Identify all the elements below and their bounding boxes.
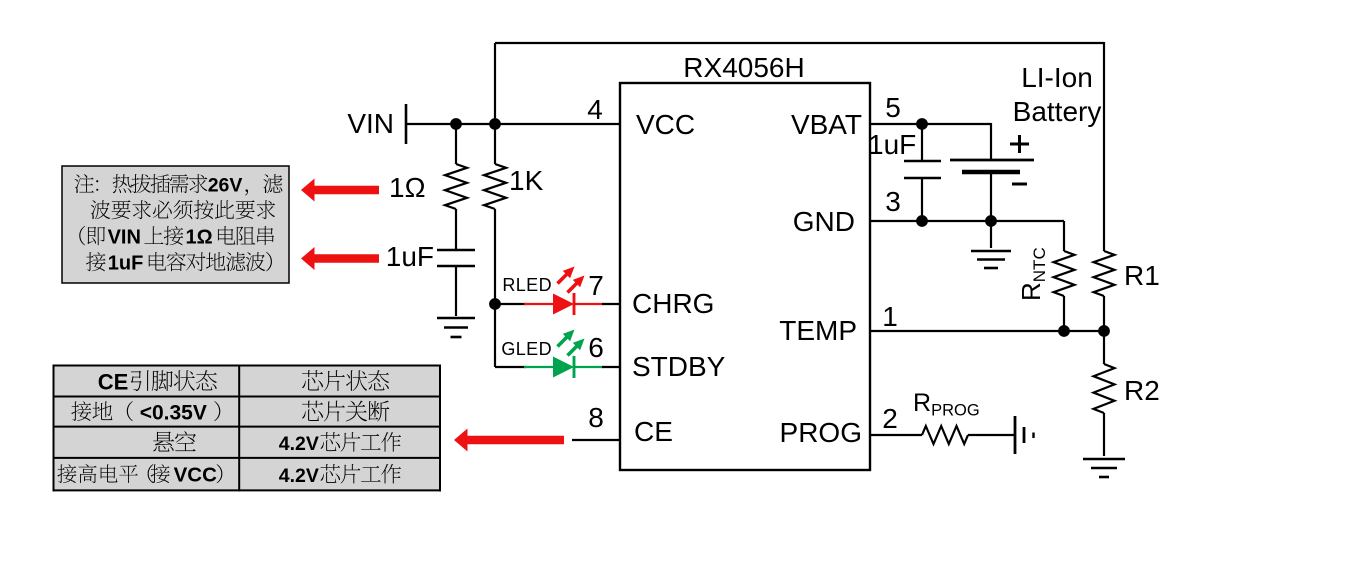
wire: PROG pin 2 to RPROG — [870, 434, 922, 436]
table cell: chip off — [302, 401, 323, 421]
resistor 1K — [484, 164, 506, 209]
svg-text:1Ω: 1Ω — [389, 172, 426, 203]
wire: top-rail left drop to VIN node — [494, 43, 496, 124]
svg-text:26V: 26V — [208, 175, 243, 197]
svg-text:LI-Ion: LI-Ion — [1021, 62, 1093, 93]
wire: GLED to STDBY pin 6 (black) — [602, 366, 621, 368]
wire: node to RLED anode (black) — [495, 303, 526, 305]
svg-text:2: 2 — [882, 403, 898, 434]
wire: battery + drop — [990, 123, 992, 161]
wire: VBAT pin 5 to battery — [870, 123, 991, 125]
svg-text:RX4056H: RX4056H — [683, 52, 804, 83]
svg-text:5: 5 — [885, 92, 901, 123]
node: TEMP/RNTC junction — [1058, 325, 1070, 337]
wire: R1 bottom to TEMP rail — [1103, 296, 1105, 331]
wire: VIN to VCC pin 4 — [406, 123, 621, 125]
wire: RLED anode lead (red) — [524, 303, 553, 305]
capacitor 1uF (input filter) — [437, 249, 475, 252]
wire: RLED cathode lead (red) — [574, 303, 604, 305]
svg-text:1K: 1K — [509, 165, 544, 196]
resistor RNTC — [1054, 251, 1075, 296]
svg-text:4: 4 — [587, 94, 603, 125]
node: junction VIN/1K/top-rail — [489, 118, 501, 130]
wire: CE pin 8 stub — [572, 439, 621, 441]
wire: GND pin 3 rail — [870, 220, 1064, 222]
note text line 1 — [75, 174, 94, 193]
svg-text:CE: CE — [634, 416, 673, 447]
LED GLED (green standby indicator) — [553, 357, 574, 378]
battery BT1 minus plate — [962, 170, 1020, 175]
ground (input filter) — [437, 317, 475, 320]
node: TEMP/R1/R2 junction — [1098, 325, 1110, 337]
svg-text:7: 7 — [588, 270, 604, 301]
svg-text:TEMP: TEMP — [779, 315, 857, 346]
svg-text:1uF: 1uF — [868, 129, 916, 160]
svg-text:VCC: VCC — [636, 109, 695, 140]
table cell: tied high to VCC — [57, 464, 76, 483]
IC U1 RX4056H body — [620, 83, 870, 470]
wire: top rail from VIN node to R1 branch — [495, 42, 1104, 44]
svg-text:RNTC: RNTC — [1016, 247, 1049, 301]
svg-text:VBAT: VBAT — [791, 109, 862, 140]
svg-text:1uF: 1uF — [386, 241, 434, 272]
svg-text:1: 1 — [882, 301, 898, 332]
wire: TEMP node to R2 — [1103, 331, 1105, 364]
svg-text:1Ω: 1Ω — [186, 227, 213, 249]
wire: LED node down to GLED row — [494, 304, 496, 367]
wire: GND rail drop to RNTC — [1063, 221, 1065, 251]
resistor RPROG — [922, 426, 968, 444]
ground (R2) — [1083, 458, 1125, 461]
svg-text:3: 3 — [885, 186, 901, 217]
svg-text:4.2V: 4.2V — [279, 465, 319, 487]
svg-text:STDBY: STDBY — [632, 351, 726, 382]
table cell: floating — [153, 431, 174, 451]
wire: top-rail right drop to R1 — [1103, 42, 1105, 251]
wire: R2 to ground — [1103, 413, 1105, 456]
wire: GLED anode lead (green) — [524, 366, 553, 368]
node: junction VIN/1ohm — [450, 118, 462, 130]
svg-text:RLED: RLED — [502, 275, 552, 295]
wire: C2 bottom lead — [921, 178, 923, 221]
wire: C2 top lead — [921, 124, 923, 161]
wire: GLED cathode lead (green) — [574, 366, 604, 368]
wire: RLED to CHRG pin 7 (black) — [602, 303, 621, 305]
annotation arrow to 1 ohm — [301, 179, 379, 202]
battery polarity + sign — [1010, 143, 1029, 146]
resistor 1 ohm — [445, 164, 467, 209]
wire: RNTC to TEMP rail — [1063, 296, 1065, 331]
wire: GND rail to ground symbol — [990, 221, 992, 248]
annotation arrow to CE pin — [454, 429, 564, 452]
resistor R1 — [1094, 251, 1115, 296]
LED RLED (red charge indicator) — [553, 294, 574, 315]
capacitor C2 1uF (battery) — [904, 160, 941, 163]
svg-text:VIN: VIN — [108, 227, 141, 249]
node: VBAT/C2 junction — [916, 118, 928, 130]
wire: node to GLED anode (black) — [495, 366, 526, 368]
ground (RPROG, rotated) — [1014, 416, 1017, 454]
wire: node to R 1ohm top — [455, 124, 457, 164]
ground (battery/GND) — [971, 250, 1011, 253]
node: GND/C2 junction — [916, 215, 928, 227]
wire: RPROG to ground — [968, 434, 1014, 436]
note box (grey annotation) — [62, 166, 289, 283]
wire: node to R 1K top — [494, 124, 496, 164]
table: CE pin state table frame — [54, 366, 441, 491]
svg-text:6: 6 — [588, 332, 604, 363]
table cell: grounded <0.35V — [71, 401, 91, 421]
note text line 4 — [86, 252, 105, 271]
resistor R2 — [1094, 364, 1115, 413]
wire: C 1uF to ground — [455, 266, 457, 316]
note text line 3 — [79, 226, 85, 246]
svg-text:PROG: PROG — [780, 417, 862, 448]
svg-text:R1: R1 — [1124, 260, 1160, 291]
svg-text:CE: CE — [98, 369, 129, 394]
battery BT1 plus plate — [950, 159, 1034, 162]
svg-text:CHRG: CHRG — [632, 288, 714, 319]
svg-text:Battery: Battery — [1013, 96, 1102, 127]
note text line 2 — [91, 200, 111, 219]
svg-text:VIN: VIN — [347, 108, 394, 139]
annotation arrow to 1uF — [301, 247, 379, 270]
svg-text:VCC: VCC — [174, 464, 217, 487]
svg-text:R2: R2 — [1124, 375, 1160, 406]
svg-text:<0.35V: <0.35V — [140, 401, 207, 424]
node: GND/battery junction — [985, 215, 997, 227]
wire: R 1K bottom to LED node — [494, 209, 496, 304]
svg-text:4.2V: 4.2V — [279, 433, 319, 455]
svg-text:GND: GND — [793, 206, 855, 237]
node: junction 1K/RLED/GLED — [489, 298, 501, 310]
svg-text:1uF: 1uF — [108, 253, 144, 275]
wire: R 1ohm bottom to C 1uF — [455, 209, 457, 250]
wire: battery - to GND rail — [990, 172, 992, 221]
wire: TEMP pin 1 rail — [870, 330, 1104, 332]
svg-text:8: 8 — [588, 402, 604, 433]
table header cell: chip state — [302, 370, 323, 390]
svg-text:GLED: GLED — [501, 339, 552, 359]
VIN input terminal — [405, 104, 408, 144]
battery polarity - sign — [1012, 183, 1027, 186]
svg-text:RPROG: RPROG — [913, 389, 980, 420]
